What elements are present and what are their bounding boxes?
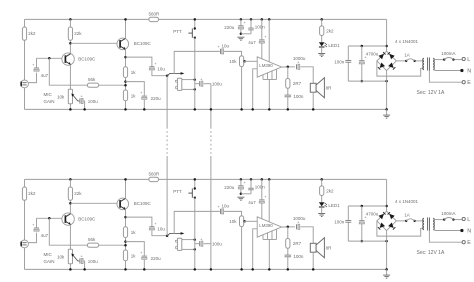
transistor Q2 BC109C (station B): [117, 198, 129, 210]
transformer T1 (station A): [423, 58, 424, 61]
wire inverting input to ground (station B): [253, 229, 258, 270]
wire pot top to PTT column (station A): [182, 79, 195, 81]
capacitor 100n supply decoupling (station A): [250, 18, 253, 21]
wire to 220u cap (station B): [126, 242, 145, 256]
resistor 1k lower emitter (station A): [123, 90, 127, 101]
capacitor 100n supply decoupling (station B): [250, 178, 253, 181]
svg-text:100u: 100u: [212, 242, 223, 247]
svg-text:4u7: 4u7: [41, 233, 49, 238]
mic gain pot wiper arrow (station A): [73, 95, 78, 101]
wire top supply rail right segment (station A): [159, 18, 387, 20]
svg-text:8R: 8R: [326, 86, 333, 91]
svg-text:1A: 1A: [404, 53, 410, 58]
capacitor 100u line coupling (station B): [195, 243, 199, 245]
node Q1 base / 56k junction (station B): [48, 217, 51, 220]
wire mic gain pot to ground (station A): [69, 104, 71, 110]
svg-text:1k: 1k: [131, 253, 137, 258]
node 22k top rail (station B): [69, 178, 72, 181]
resistor 1k upper emitter (station B): [123, 227, 127, 238]
wire 2k2 to microphone (station B): [24, 200, 26, 240]
capacitor 100n psu (station B): [347, 206, 349, 220]
svg-text:+: +: [264, 195, 266, 199]
wire op-amp supply pin (station A): [268, 18, 271, 21]
switch PTT (station A): [194, 27, 196, 29]
ground psu (station A): [386, 109, 388, 114]
wire microphone to ground rail (station B): [24, 248, 26, 270]
svg-text:4u7: 4u7: [41, 73, 49, 78]
svg-text:22k: 22k: [74, 191, 82, 196]
svg-text:BC109C: BC109C: [134, 41, 152, 46]
svg-text:22k: 22k: [74, 31, 82, 36]
op-amp U1 LM390 (station A): [257, 57, 281, 77]
capacitor 10u amplifier input coupling (station B): [219, 209, 221, 214]
wire positive filter link (station B): [348, 205, 386, 207]
capacitor 100u mic gain bypass (station A): [78, 100, 80, 102]
wire 220u to ground rail (station B): [143, 260, 145, 270]
wire 10u to 10k input resistor (station B): [224, 211, 242, 216]
wire rail to bridge positive (station A): [386, 19, 388, 51]
capacitor 10u emitter output coupling (station A): [149, 66, 154, 68]
capacitor 100u line coupling (station A): [199, 81, 201, 86]
wire 10k to ground rail (station A): [241, 67, 243, 110]
wire fuse to transformer (station B): [416, 220, 424, 222]
svg-text:+: +: [140, 91, 142, 95]
wire ground rail (station B): [25, 268, 387, 270]
resistor 2R7 zobel (station B): [287, 227, 289, 239]
svg-text:LM390: LM390: [259, 63, 273, 68]
svg-text:2k2: 2k2: [326, 29, 334, 34]
wire interconnect ground line A-B: [195, 83, 199, 85]
svg-text:PTT: PTT: [173, 189, 182, 194]
wire 4u7 to Q1 base (station B): [36, 218, 38, 228]
node interconnect ground at rail A: [210, 108, 213, 111]
wire op-amp ground to rail (station A): [268, 80, 270, 110]
wire 56k to 1k junction (station B): [99, 244, 126, 246]
svg-text:10u: 10u: [222, 204, 230, 209]
svg-text:BC109C: BC109C: [78, 56, 96, 61]
op-amp U1 LM390 (station B): [257, 217, 281, 237]
wire op-amp supply pin (station B): [268, 178, 271, 181]
svg-text:56k: 56k: [88, 77, 96, 82]
svg-text:10k: 10k: [57, 255, 65, 260]
svg-text:GAIN: GAIN: [44, 259, 55, 264]
svg-text:220u: 220u: [224, 185, 235, 190]
wire PTT column upper (station B): [194, 179, 196, 188]
wire Q1 emitter to mic gain pot (station B): [69, 225, 71, 250]
svg-text:LM390: LM390: [259, 223, 273, 228]
svg-text:+: +: [244, 21, 246, 25]
svg-text:BC109C: BC109C: [78, 216, 96, 221]
svg-text:220u: 220u: [224, 25, 235, 30]
switch PTT (station B): [194, 187, 196, 189]
capacitor 220u emitter feedback (station A): [142, 95, 147, 97]
capacitor 4u7 input coupling (station A): [34, 67, 39, 69]
svg-text:8R: 8R: [326, 246, 333, 251]
wire 56k feedback branch (station B): [49, 218, 87, 245]
wire pot bottom to PTT column (station B): [182, 248, 195, 250]
ground LED (station B): [318, 213, 325, 215]
capacitor 100n psu (station A): [347, 46, 349, 60]
svg-text:N: N: [467, 69, 471, 75]
wire speaker to ground rail (station A): [312, 92, 314, 109]
transistor Q1 BC109C (station A): [62, 53, 74, 65]
svg-text:1A: 1A: [404, 213, 410, 218]
svg-text:220u: 220u: [151, 256, 162, 261]
svg-text:Sec: 12V 1A: Sec: 12V 1A: [417, 90, 445, 96]
wire 1k to ground rail (station B): [125, 261, 127, 270]
wire LED to ground symbol (station B): [321, 207, 323, 213]
potentiometer 10k MIC GAIN (station B): [68, 249, 72, 263]
svg-text:+: +: [297, 220, 299, 224]
wire positive filter link (station A): [348, 45, 386, 47]
resistor 10k amplifier input (station A): [240, 56, 244, 67]
wire wiper signal feed (station B): [174, 211, 220, 233]
capacitor 220u supply decoupling (station B): [240, 178, 243, 181]
svg-text:+: +: [297, 60, 299, 64]
wire Q2 collector to rail (station A): [125, 19, 127, 38]
capacitor 4u7 bypass (station B): [261, 178, 264, 181]
fuse 100mA (station A): [443, 58, 445, 60]
wire input node to op-amp (station A): [244, 60, 258, 62]
wire 1000u to speaker (station A): [301, 67, 314, 84]
wire microphone output (station A): [28, 73, 36, 83]
wire bridge negative to ground rail (station B): [386, 241, 388, 269]
svg-text:100n: 100n: [334, 60, 345, 65]
wire zobel to ground rail (station A): [287, 97, 289, 110]
wire bridge negative (station A): [386, 71, 388, 82]
resistor 56k feedback (station B): [87, 243, 98, 247]
node bridge positive (station B): [385, 205, 388, 208]
svg-text:10u: 10u: [157, 226, 165, 231]
wire speaker to ground rail (station B): [312, 252, 314, 269]
resistor 560R (station B): [149, 177, 159, 181]
wire microphone to ground rail (station A): [24, 88, 26, 110]
node Q2 emitter junction (station B): [124, 216, 127, 219]
svg-text:1000u: 1000u: [293, 216, 306, 221]
wire Q2 emitter (station A): [125, 49, 127, 67]
svg-text:2k2: 2k2: [28, 191, 36, 196]
wire top supply rail left segment (station A): [25, 18, 149, 20]
svg-text:GAIN: GAIN: [44, 99, 55, 104]
fuse 1A (station B): [405, 220, 407, 222]
svg-text:1000u: 1000u: [293, 56, 306, 61]
wire Q2 emitter (station B): [125, 209, 127, 227]
wire emitter to 10u cap (station B): [126, 217, 152, 226]
svg-text:1k: 1k: [131, 70, 137, 75]
node amplifier input (station A): [243, 60, 246, 63]
node op-amp output (station A): [282, 66, 296, 68]
node op-amp output (station B): [282, 226, 296, 228]
svg-text:100n: 100n: [255, 184, 266, 189]
LED1 (station A): [321, 36, 323, 43]
svg-text:2k2: 2k2: [28, 31, 36, 36]
svg-text:+: +: [218, 45, 220, 49]
wire mic gain pot to ground (station B): [69, 264, 71, 270]
svg-text:+: +: [32, 223, 34, 227]
svg-text:100mA: 100mA: [441, 211, 455, 216]
node interconnect tap (station B): [166, 234, 169, 237]
wire bridge AC right (station A): [396, 60, 405, 62]
wire PTT column lower (station A): [194, 38, 196, 110]
node 56k return (station A): [124, 84, 127, 87]
wire emitter to 10u cap (station A): [126, 57, 152, 66]
wire zobel to ground rail (station B): [287, 257, 289, 270]
wire 100u to ground rail (station B): [83, 261, 86, 269]
wire top supply rail right segment (station B): [159, 178, 387, 180]
svg-text:4u7: 4u7: [248, 200, 256, 205]
wire 1k to ground rail (station A): [125, 101, 127, 110]
resistor 560R (station A): [149, 17, 159, 21]
wire 56k feedback branch (station A): [49, 58, 87, 85]
svg-text:PTT: PTT: [173, 29, 182, 34]
op-amp ground pins comb (station B): [262, 235, 264, 240]
terminal L (station B): [455, 219, 463, 221]
svg-text:100n: 100n: [293, 94, 304, 99]
node Q1 collector junction (station B): [69, 202, 72, 205]
wire negative filter link (station B): [348, 240, 386, 242]
resistor 22k Q1 collector load (station B): [68, 187, 72, 200]
svg-text:100u: 100u: [212, 82, 223, 87]
wire Q2 collector to rail (station B): [125, 179, 127, 198]
wire to 220u cap (station A): [126, 82, 145, 96]
svg-text:+: +: [81, 95, 83, 99]
wire 10u to wiper node (station B): [152, 231, 167, 236]
svg-text:2k2: 2k2: [326, 189, 334, 194]
svg-text:100u: 100u: [88, 99, 99, 104]
capacitor 220u emitter feedback (station B): [142, 255, 147, 257]
node decoupling ground (station A): [240, 33, 243, 36]
node interconnect ground at rail B: [210, 268, 213, 271]
svg-text:+: +: [244, 181, 246, 185]
svg-text:MIC: MIC: [44, 252, 53, 257]
LED1 (station B): [321, 196, 323, 203]
svg-text:100n: 100n: [255, 24, 266, 29]
svg-text:4u7: 4u7: [248, 40, 256, 45]
svg-text:+: +: [140, 251, 142, 255]
svg-text:100u: 100u: [88, 259, 99, 264]
svg-text:100n: 100n: [334, 220, 345, 225]
volume potentiometer body (station B): [177, 238, 181, 250]
wire primary top (station A): [433, 59, 443, 61]
wire wiper signal feed (station A): [174, 51, 220, 73]
wire bridge AC left (station B): [377, 221, 424, 236]
fuse 1A (station A): [405, 60, 407, 62]
svg-text:10k: 10k: [229, 219, 237, 224]
capacitor 100u mic gain bypass (station B): [78, 260, 80, 262]
wire rail to bridge positive (station B): [386, 179, 388, 211]
wire primary top (station B): [433, 219, 443, 221]
svg-text:L: L: [467, 217, 470, 223]
wire 10u to wiper node (station A): [152, 71, 167, 76]
resistor 56k feedback (station A): [87, 83, 98, 87]
svg-text:+: +: [200, 77, 202, 81]
ground LED (station A): [318, 53, 325, 55]
node decoupling ground (station B): [240, 193, 243, 196]
mic gain pot wiper arrow (station B): [73, 255, 78, 261]
svg-text:+: +: [155, 222, 157, 226]
fuse 100mA (station B): [443, 218, 445, 220]
bridge rectifier 4 x 1N4001 (station A): [377, 51, 396, 70]
wire input node to op-amp (station B): [244, 220, 258, 222]
svg-text:4700u: 4700u: [366, 212, 379, 217]
resistor 2R7 zobel (station A): [287, 67, 289, 79]
wire 1000u to speaker (station B): [301, 227, 314, 244]
wire between 1k resistors (station B): [125, 238, 127, 251]
volume pot wiper arrow (station B): [167, 233, 181, 235]
svg-text:10u: 10u: [157, 66, 165, 71]
volume pot wiper arrow (station A): [167, 73, 181, 75]
node amplifier input (station B): [243, 220, 246, 223]
svg-text:220u: 220u: [151, 96, 162, 101]
wire pot top to PTT column (station B): [182, 239, 195, 241]
terminal E (station A): [429, 71, 462, 83]
volume potentiometer body (station A): [177, 78, 181, 90]
speaker LS1 8R (station A): [310, 83, 316, 92]
svg-text:10k: 10k: [57, 95, 65, 100]
svg-text:2R7: 2R7: [293, 241, 302, 246]
wire microphone output (station B): [28, 233, 36, 243]
wire fuse to transformer (station A): [416, 60, 424, 62]
svg-text:MIC: MIC: [44, 92, 53, 97]
wire negative filter link (station A): [348, 80, 386, 82]
svg-text:4700u: 4700u: [366, 52, 379, 57]
svg-text:Sec: 12V 1A: Sec: 12V 1A: [417, 250, 445, 256]
node 220u branch (station B): [124, 240, 127, 243]
wire top supply rail left segment (station B): [25, 178, 149, 180]
capacitor 4700u psu (station B): [361, 205, 364, 208]
wire LED to ground symbol (station A): [321, 47, 323, 53]
wire ground rail (station A): [25, 108, 387, 110]
wire op-amp ground to rail (station B): [268, 240, 270, 270]
svg-text:E: E: [467, 240, 471, 246]
wire Q1 collector to Q2 base (station A): [70, 42, 117, 44]
capacitor 1000u output coupling (station B): [296, 224, 298, 229]
svg-text:1k: 1k: [131, 230, 137, 235]
wire 10k to ground rail (station B): [241, 227, 243, 270]
resistor 1k lower emitter (station B): [123, 250, 127, 261]
svg-text:+: +: [264, 35, 266, 39]
svg-text:+: +: [155, 62, 157, 66]
svg-text:+: +: [32, 63, 34, 67]
node 220u branch (station A): [124, 80, 127, 83]
node 22k top rail (station A): [69, 18, 72, 21]
svg-text:+: +: [200, 237, 202, 241]
capacitor 100n zobel (station A): [287, 88, 289, 95]
capacitor 220u supply decoupling (station A): [240, 18, 243, 21]
capacitor 4u7 bypass (station A): [261, 18, 264, 21]
svg-text:100mA: 100mA: [441, 51, 455, 56]
svg-text:10k: 10k: [229, 59, 237, 64]
resistor 10k amplifier input (station B): [240, 216, 244, 227]
svg-text:4 x 1N4001: 4 x 1N4001: [395, 199, 419, 204]
svg-text:L: L: [467, 57, 470, 63]
svg-text:100n: 100n: [293, 254, 304, 259]
svg-text:+: +: [218, 205, 220, 209]
terminal N (station A): [433, 67, 460, 71]
microphone MIC1 (station B): [21, 240, 29, 248]
resistor 1k upper emitter (station A): [123, 67, 127, 78]
node 56k return (station B): [124, 244, 127, 247]
svg-text:E: E: [467, 80, 471, 86]
resistor 2k2 mic bias (station B): [22, 187, 26, 200]
wire interconnect signal line A-B: [166, 76, 168, 127]
wire PTT column upper (station A): [194, 19, 196, 28]
transistor Q2 BC109C (station A): [117, 38, 129, 50]
svg-text:56k: 56k: [88, 237, 96, 242]
terminal E (station B): [429, 231, 462, 243]
wire 100u to ground rail (station A): [83, 101, 86, 109]
wire 56k to 1k junction (station A): [99, 84, 126, 86]
svg-text:+: +: [81, 255, 83, 259]
wire 4u7 to Q1 base (station A): [36, 58, 38, 68]
wire 220u to ground rail (station A): [143, 100, 145, 110]
svg-text:1k: 1k: [131, 93, 137, 98]
wire pot bottom to PTT column (station A): [182, 88, 195, 90]
svg-text:560R: 560R: [149, 12, 161, 17]
node Q1 base / 56k junction (station A): [48, 57, 51, 60]
resistor 22k Q1 collector load (station A): [68, 27, 72, 40]
wire bridge AC right (station B): [396, 220, 405, 222]
svg-text:2R7: 2R7: [293, 81, 302, 86]
capacitor 4u7 input coupling (station B): [34, 227, 39, 229]
op-amp ground pins comb (station A): [262, 75, 264, 80]
svg-text:BC109C: BC109C: [134, 201, 152, 206]
transformer T1 (station B): [423, 218, 424, 221]
node Q2 emitter junction (station A): [124, 56, 127, 59]
microphone MIC1 (station A): [21, 80, 29, 88]
potentiometer 10k MIC GAIN (station A): [68, 89, 72, 103]
ground decoupling (station A): [237, 36, 244, 38]
svg-text:LED1: LED1: [328, 203, 340, 208]
capacitor 100n zobel (station B): [287, 248, 289, 255]
wire Q1 collector (station B): [69, 200, 71, 213]
wire Q1 emitter to mic gain pot (station A): [69, 65, 71, 90]
capacitor 10u emitter output coupling (station B): [149, 226, 154, 228]
svg-text:N: N: [467, 229, 471, 235]
wire between 1k resistors (station A): [125, 78, 127, 91]
svg-text:560R: 560R: [149, 172, 161, 177]
node bridge positive (station A): [385, 45, 388, 48]
svg-text:4 x 1N4001: 4 x 1N4001: [395, 39, 419, 44]
wire 2k2 to microphone (station A): [24, 40, 26, 80]
capacitor 1000u output coupling (station A): [296, 64, 298, 69]
resistor 2k2 LED (station B): [320, 178, 323, 181]
node interconnect tap (station A): [166, 74, 169, 77]
node Q1 collector junction (station A): [69, 42, 72, 45]
terminal L (station A): [455, 59, 463, 61]
capacitor 10u amplifier input coupling (station A): [219, 49, 221, 54]
wire inverting input to ground (station A): [253, 69, 258, 110]
wire left supply drop (station A): [24, 19, 26, 27]
wire Q1 collector to Q2 base (station B): [70, 202, 117, 204]
wire left supply drop (station B): [24, 179, 26, 187]
bridge rectifier 4 x 1N4001 (station B): [377, 211, 396, 230]
ground decoupling (station B): [237, 196, 244, 198]
terminal N (station B): [433, 227, 460, 231]
resistor 2k2 mic bias (station A): [22, 27, 26, 40]
svg-text:10u: 10u: [222, 44, 230, 49]
ground psu (station B): [386, 269, 388, 274]
wire bridge negative to ground rail (station A): [386, 81, 388, 109]
wire Q1 collector (station A): [69, 40, 71, 53]
wire bridge AC left (station A): [377, 61, 424, 76]
wire bridge negative (station B): [386, 231, 388, 242]
resistor 2k2 LED (station A): [320, 18, 323, 21]
transistor Q1 BC109C (station B): [62, 213, 74, 225]
svg-text:LED1: LED1: [328, 43, 340, 48]
speaker LS1 8R (station B): [310, 243, 316, 252]
capacitor 4700u psu (station A): [361, 45, 364, 48]
